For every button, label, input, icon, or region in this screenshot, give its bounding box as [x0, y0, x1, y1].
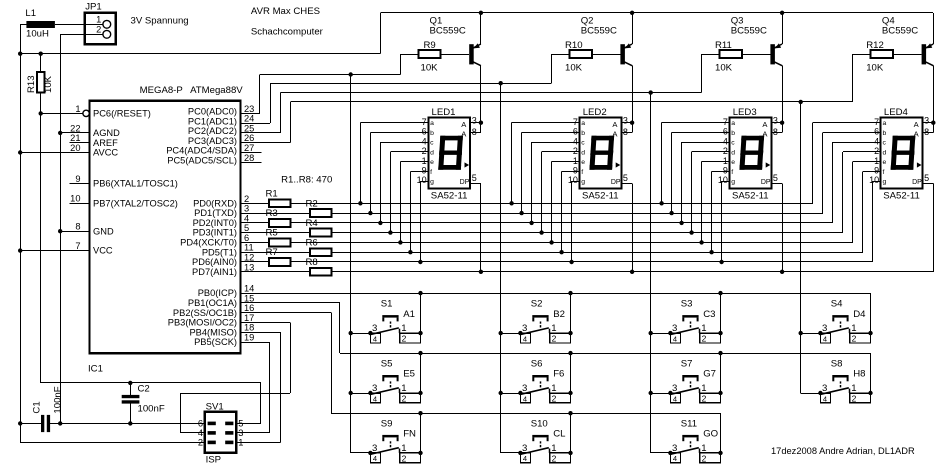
- svg-text:3: 3: [522, 443, 527, 454]
- svg-text:SA52-11: SA52-11: [582, 190, 619, 201]
- svg-text:4: 4: [198, 428, 203, 438]
- svg-text:S10: S10: [531, 418, 548, 429]
- svg-text:4: 4: [523, 394, 527, 403]
- svg-text:9: 9: [422, 166, 427, 176]
- svg-text:3: 3: [522, 323, 527, 334]
- svg-text:5: 5: [924, 173, 929, 183]
- svg-text:1: 1: [723, 156, 728, 166]
- svg-text:R3: R3: [266, 208, 278, 219]
- svg-text:8: 8: [924, 127, 929, 137]
- svg-text:2: 2: [723, 146, 728, 156]
- svg-text:F6: F6: [553, 369, 564, 380]
- svg-text:3: 3: [672, 383, 677, 394]
- wire PC0 net: [241, 54, 401, 453]
- svg-text:ATMega88V: ATMega88V: [190, 85, 243, 96]
- svg-text:S11: S11: [681, 418, 697, 429]
- svg-text:BC559C: BC559C: [581, 25, 617, 36]
- svg-text:19: 19: [244, 333, 254, 343]
- svg-text:a: a: [430, 120, 434, 127]
- svg-text:R7: R7: [266, 247, 278, 258]
- svg-text:3: 3: [672, 323, 677, 334]
- svg-text:R1..R8: 470: R1..R8: 470: [281, 174, 332, 185]
- svg-text:PD5(T1): PD5(T1): [202, 247, 237, 257]
- svg-text:10: 10: [718, 175, 728, 185]
- svg-text:6: 6: [244, 233, 249, 243]
- svg-text:17dez2008 Andre Adrian, DL1ADR: 17dez2008 Andre Adrian, DL1ADR: [771, 446, 915, 456]
- svg-text:f: f: [883, 169, 885, 176]
- resistor R2 470: [306, 198, 332, 217]
- svg-text:R12: R12: [866, 40, 884, 51]
- svg-text:5: 5: [773, 173, 778, 183]
- svg-text:SA52-11: SA52-11: [883, 190, 920, 201]
- text title: [251, 6, 324, 37]
- svg-text:PB3(MOSI/OC2): PB3(MOSI/OC2): [168, 318, 237, 328]
- svg-text:1: 1: [851, 383, 856, 394]
- svg-text:1: 1: [573, 156, 578, 166]
- svg-text:4: 4: [673, 454, 677, 463]
- svg-text:100nF: 100nF: [138, 404, 165, 415]
- resistor R10 10K: [552, 40, 592, 73]
- wire segment taps LED3: [659, 121, 784, 274]
- IC1 left pin stubs AREF PB6 PB7: [70, 143, 90, 204]
- svg-text:b: b: [581, 130, 585, 137]
- svg-text:17: 17: [244, 313, 254, 323]
- svg-text:LED2: LED2: [583, 107, 607, 118]
- wire PB1 keyboard row net: [241, 303, 871, 356]
- svg-text:S8: S8: [831, 358, 843, 369]
- svg-text:D4: D4: [853, 309, 866, 320]
- svg-text:C3: C3: [703, 309, 715, 320]
- wire PC1 net: [241, 54, 552, 453]
- svg-text:6: 6: [198, 419, 203, 429]
- switch S2 B2: [501, 299, 573, 344]
- wire PC2 net: [241, 54, 702, 453]
- op IC1 ATMega8 box: [88, 85, 243, 374]
- svg-text:2: 2: [702, 334, 707, 344]
- svg-text:4: 4: [673, 394, 677, 403]
- svg-text:PB0(ICP): PB0(ICP): [198, 288, 237, 298]
- wire PB5 SCK net: [236, 342, 270, 433]
- svg-text:5: 5: [472, 173, 477, 183]
- svg-text:ISP: ISP: [206, 455, 221, 466]
- svg-text:7: 7: [573, 117, 578, 127]
- svg-text:1: 1: [874, 156, 879, 166]
- svg-text:3: 3: [372, 443, 377, 454]
- svg-text:9: 9: [573, 166, 578, 176]
- svg-text:4: 4: [422, 136, 427, 146]
- svg-text:3: 3: [238, 428, 243, 438]
- svg-text:A1: A1: [403, 309, 415, 320]
- svg-text:1: 1: [551, 443, 556, 454]
- switch S6 F6: [501, 358, 573, 403]
- svg-text:C2: C2: [138, 384, 150, 395]
- resistor R12 10K: [853, 40, 893, 73]
- svg-text:4: 4: [523, 334, 527, 343]
- svg-text:PD0(RXD): PD0(RXD): [193, 198, 237, 208]
- svg-text:L1: L1: [25, 8, 36, 19]
- svg-text:18: 18: [244, 323, 254, 333]
- svg-text:E5: E5: [403, 369, 415, 380]
- svg-text:VCC: VCC: [93, 246, 113, 256]
- svg-text:1: 1: [96, 15, 101, 25]
- svg-text:AVCC: AVCC: [93, 148, 118, 158]
- wire keyboard right-contact links: [421, 293, 871, 453]
- svg-text:13: 13: [244, 262, 254, 272]
- svg-text:e: e: [883, 159, 887, 166]
- IC1 right pin stubs PC4 PC5: [241, 153, 262, 163]
- svg-text:10K: 10K: [43, 75, 54, 93]
- svg-text:SA52-11: SA52-11: [431, 190, 468, 201]
- transistor Q2 BC559C: [581, 13, 633, 133]
- svg-text:22: 22: [70, 123, 80, 133]
- svg-text:4: 4: [523, 454, 527, 463]
- svg-text:3V Spannung: 3V Spannung: [131, 15, 189, 26]
- svg-text:g: g: [430, 179, 434, 186]
- svg-text:R4: R4: [306, 218, 319, 229]
- svg-text:2: 2: [244, 194, 249, 204]
- svg-text:16: 16: [244, 303, 254, 313]
- IC1 pin 1 reset bubble: [83, 110, 89, 116]
- svg-text:9: 9: [75, 174, 80, 184]
- svg-text:2: 2: [422, 146, 427, 156]
- svg-text:8: 8: [75, 222, 80, 232]
- svg-text:3: 3: [472, 116, 477, 126]
- svg-text:2: 2: [552, 394, 557, 404]
- svg-text:14: 14: [244, 284, 254, 294]
- svg-text:AGND: AGND: [93, 128, 120, 138]
- svg-text:a: a: [883, 120, 887, 127]
- svg-text:JP1: JP1: [85, 2, 102, 13]
- resistor R5 470: [266, 228, 291, 247]
- svg-text:7: 7: [422, 117, 427, 127]
- svg-text:b: b: [430, 130, 434, 137]
- switch S5 E5: [351, 358, 423, 403]
- svg-text:2: 2: [852, 334, 857, 344]
- svg-text:BC559C: BC559C: [882, 25, 918, 36]
- svg-text:MEGA8-P: MEGA8-P: [140, 85, 183, 96]
- svg-text:CL: CL: [553, 429, 566, 440]
- svg-text:H8: H8: [853, 369, 865, 380]
- svg-text:R9: R9: [424, 40, 436, 51]
- svg-text:2: 2: [874, 146, 879, 156]
- svg-text:g: g: [581, 179, 585, 186]
- svg-text:1: 1: [401, 383, 406, 394]
- svg-text:SV1: SV1: [206, 401, 224, 412]
- display LED1 SA52-11: [417, 107, 477, 202]
- svg-text:4: 4: [723, 136, 728, 146]
- svg-text:4: 4: [823, 334, 827, 343]
- svg-text:BC559C: BC559C: [430, 25, 466, 36]
- svg-text:PB5(SCK): PB5(SCK): [194, 337, 237, 347]
- svg-text:PB7(XTAL2/TOSC2): PB7(XTAL2/TOSC2): [93, 198, 178, 208]
- display LED2 SA52-11: [568, 107, 628, 202]
- display LED4 SA52-11: [869, 107, 929, 202]
- svg-text:1: 1: [851, 323, 856, 334]
- svg-text:PC4(ADC4/SDA): PC4(ADC4/SDA): [166, 146, 237, 156]
- svg-text:2: 2: [552, 334, 557, 344]
- svg-text:4: 4: [823, 394, 827, 403]
- svg-text:C1: C1: [32, 401, 43, 413]
- svg-text:a: a: [581, 120, 585, 127]
- svg-text:20: 20: [70, 143, 80, 153]
- svg-text:S6: S6: [531, 358, 543, 369]
- svg-text:1: 1: [701, 443, 706, 454]
- svg-text:100nF: 100nF: [53, 386, 64, 413]
- svg-text:2: 2: [852, 394, 857, 404]
- svg-text:10K: 10K: [421, 63, 439, 74]
- IC1 pin labels: [70, 104, 254, 347]
- wire PC3 net: [241, 54, 853, 393]
- svg-text:28: 28: [244, 153, 254, 163]
- svg-text:3: 3: [522, 383, 527, 394]
- svg-text:23: 23: [244, 104, 254, 114]
- wire segment taps LED4: [813, 121, 936, 272]
- connector SV1 ISP: [195, 401, 244, 465]
- svg-text:1: 1: [238, 438, 243, 448]
- svg-text:11: 11: [244, 243, 254, 253]
- svg-text:7: 7: [723, 117, 728, 127]
- svg-text:2: 2: [702, 394, 707, 404]
- switch S4 D4: [801, 299, 873, 344]
- svg-text:9: 9: [723, 166, 728, 176]
- svg-text:21: 21: [70, 133, 80, 143]
- svg-text:2: 2: [702, 454, 707, 464]
- svg-text:5: 5: [238, 419, 243, 429]
- svg-text:3: 3: [924, 116, 929, 126]
- svg-text:10: 10: [869, 175, 879, 185]
- svg-text:4: 4: [373, 394, 377, 403]
- switch S3 C3: [651, 299, 723, 344]
- svg-text:d: d: [883, 149, 887, 156]
- wire segment taps LED1: [358, 121, 483, 274]
- svg-text:LED4: LED4: [884, 107, 909, 118]
- svg-text:AVR Max CHES: AVR Max CHES: [251, 6, 320, 17]
- svg-text:PD7(AIN1): PD7(AIN1): [192, 267, 237, 277]
- svg-text:4: 4: [373, 454, 377, 463]
- transistor Q3 BC559C: [731, 13, 783, 133]
- svg-text:10uH: 10uH: [26, 29, 49, 40]
- svg-text:FN: FN: [403, 429, 416, 440]
- svg-text:6: 6: [874, 127, 879, 137]
- wire PB3 MOSI net: [180, 322, 290, 433]
- inductor L1 10uH: [25, 8, 55, 39]
- transistor Q1 BC559C: [430, 13, 481, 133]
- svg-text:e: e: [581, 159, 585, 166]
- svg-text:S5: S5: [381, 358, 393, 369]
- svg-text:d: d: [581, 149, 585, 156]
- svg-text:GO: GO: [703, 429, 718, 440]
- svg-text:PC0(ADC0): PC0(ADC0): [188, 107, 237, 117]
- svg-text:1: 1: [701, 383, 706, 394]
- svg-text:27: 27: [244, 143, 254, 153]
- svg-text:PD1(TXD): PD1(TXD): [194, 208, 237, 218]
- svg-text:Schachcomputer: Schachcomputer: [251, 26, 324, 37]
- svg-text:2: 2: [198, 438, 203, 448]
- svg-text:7: 7: [75, 241, 80, 251]
- wire PB4 MISO net: [236, 332, 280, 442]
- svg-text:10: 10: [568, 175, 578, 185]
- switch S1 A1: [351, 299, 423, 344]
- svg-text:3: 3: [623, 116, 628, 126]
- svg-text:B2: B2: [553, 309, 565, 320]
- svg-text:2: 2: [552, 454, 557, 464]
- svg-text:c: c: [430, 140, 434, 147]
- svg-text:LED3: LED3: [733, 107, 757, 118]
- svg-text:4: 4: [673, 334, 677, 343]
- svg-text:f: f: [430, 169, 432, 176]
- svg-text:DP: DP: [460, 179, 470, 186]
- svg-text:1: 1: [422, 156, 427, 166]
- svg-text:15: 15: [244, 293, 254, 303]
- svg-text:3: 3: [672, 443, 677, 454]
- switch S8 H8: [801, 358, 873, 403]
- svg-text:BC559C: BC559C: [731, 25, 767, 36]
- svg-text:DP: DP: [761, 179, 771, 186]
- svg-text:10: 10: [70, 194, 80, 204]
- wire PB0 keyboard row net: [241, 291, 871, 295]
- svg-text:10K: 10K: [866, 63, 884, 74]
- svg-text:PD4(XCK/T0): PD4(XCK/T0): [180, 238, 237, 248]
- resistor R11 10K: [702, 40, 742, 73]
- svg-text:S3: S3: [681, 299, 693, 310]
- svg-text:e: e: [731, 159, 735, 166]
- wire segment taps LED2: [509, 121, 634, 274]
- svg-text:LED1: LED1: [432, 107, 456, 118]
- svg-text:PD2(INT0): PD2(INT0): [193, 218, 237, 228]
- svg-text:PB6(XTAL1/TOSC1): PB6(XTAL1/TOSC1): [93, 178, 178, 188]
- svg-text:10K: 10K: [565, 63, 583, 74]
- svg-text:PD6(AIN0): PD6(AIN0): [192, 257, 237, 267]
- svg-text:4: 4: [573, 136, 578, 146]
- svg-text:2: 2: [402, 334, 407, 344]
- svg-text:PD3(INT1): PD3(INT1): [193, 228, 237, 238]
- svg-text:S1: S1: [381, 299, 393, 310]
- wire GND net: [50, 34, 205, 425]
- resistor R6 470: [306, 237, 332, 256]
- svg-text:8: 8: [773, 127, 778, 137]
- svg-text:c: c: [581, 140, 585, 147]
- svg-text:4: 4: [373, 334, 377, 343]
- svg-text:R10: R10: [565, 40, 583, 51]
- svg-text:8: 8: [472, 127, 477, 137]
- resistor R3 470: [266, 208, 291, 227]
- svg-text:26: 26: [244, 133, 254, 143]
- svg-text:DP: DP: [912, 179, 922, 186]
- svg-text:R1: R1: [266, 189, 278, 200]
- svg-text:d: d: [430, 149, 434, 156]
- svg-text:PC3(ADC3): PC3(ADC3): [188, 136, 237, 146]
- resistor R9 10K: [401, 40, 441, 73]
- svg-text:g: g: [883, 179, 887, 186]
- svg-text:DP: DP: [611, 179, 621, 186]
- svg-text:2: 2: [573, 146, 578, 156]
- switch S11 GO: [651, 418, 723, 463]
- svg-text:8: 8: [623, 127, 628, 137]
- svg-text:S2: S2: [531, 299, 543, 310]
- svg-text:R13: R13: [26, 75, 37, 93]
- svg-text:3: 3: [822, 383, 827, 394]
- svg-text:PB2(SS/OC1B): PB2(SS/OC1B): [173, 308, 237, 318]
- svg-text:24: 24: [244, 114, 254, 124]
- switch S7 G7: [651, 358, 723, 403]
- svg-text:3: 3: [372, 323, 377, 334]
- switch S10 CL: [501, 418, 573, 463]
- svg-text:6: 6: [422, 127, 427, 137]
- svg-text:GND: GND: [93, 226, 114, 236]
- svg-text:7: 7: [874, 117, 879, 127]
- svg-text:g: g: [731, 179, 735, 186]
- svg-text:R5: R5: [266, 228, 278, 239]
- svg-text:1: 1: [75, 104, 80, 114]
- svg-text:a: a: [731, 120, 735, 127]
- svg-text:f: f: [731, 169, 733, 176]
- svg-text:3: 3: [372, 383, 377, 394]
- svg-text:PB4(MISO): PB4(MISO): [189, 327, 237, 337]
- svg-text:b: b: [883, 130, 887, 137]
- svg-text:S9: S9: [381, 418, 393, 429]
- wire RESET net: [39, 52, 261, 424]
- svg-text:S4: S4: [831, 299, 843, 310]
- svg-text:2: 2: [96, 25, 101, 35]
- svg-text:d: d: [731, 149, 735, 156]
- resistor R1 470: [266, 189, 291, 208]
- svg-text:2: 2: [402, 394, 407, 404]
- capacitor C2 100nF: [122, 381, 165, 424]
- wire segment data rows PD0-PD7: [241, 204, 934, 272]
- capacitor C1 100nF: [20, 386, 63, 432]
- transistor Q4 BC559C: [882, 13, 934, 133]
- svg-text:R6: R6: [306, 237, 318, 248]
- svg-text:5: 5: [244, 223, 249, 233]
- svg-text:PC1(ADC1): PC1(ADC1): [188, 116, 237, 126]
- svg-text:PB1(OC1A): PB1(OC1A): [188, 298, 237, 308]
- svg-text:PC5(ADC5/SCL): PC5(ADC5/SCL): [167, 155, 237, 165]
- svg-text:G7: G7: [703, 369, 716, 380]
- svg-text:10: 10: [417, 175, 427, 185]
- svg-text:3: 3: [773, 116, 778, 126]
- svg-text:9: 9: [874, 166, 879, 176]
- svg-text:1: 1: [551, 383, 556, 394]
- svg-text:4: 4: [874, 136, 879, 146]
- svg-text:6: 6: [573, 127, 578, 137]
- wire PB2 keyboard row net: [241, 313, 721, 416]
- svg-text:R11: R11: [715, 40, 732, 51]
- resistor R13 10K: [26, 72, 54, 93]
- svg-text:10K: 10K: [715, 63, 733, 74]
- svg-text:R8: R8: [306, 257, 318, 268]
- svg-text:e: e: [430, 159, 434, 166]
- display LED3 SA52-11: [718, 107, 778, 202]
- connector JP1 3V Spannung: [60, 2, 188, 45]
- switch S9 FN: [351, 418, 423, 463]
- svg-text:1: 1: [551, 323, 556, 334]
- svg-text:IC1: IC1: [88, 364, 103, 375]
- svg-text:f: f: [581, 169, 583, 176]
- svg-text:3: 3: [822, 323, 827, 334]
- svg-text:1: 1: [401, 443, 406, 454]
- svg-text:2: 2: [402, 454, 407, 464]
- resistor R7 470: [266, 247, 291, 266]
- resistor R4 470: [306, 218, 332, 237]
- svg-text:PC2(ADC2): PC2(ADC2): [188, 126, 237, 136]
- svg-text:6: 6: [723, 127, 728, 137]
- svg-text:SA52-11: SA52-11: [732, 190, 769, 201]
- resistor R8 470: [306, 257, 332, 276]
- svg-text:3: 3: [244, 204, 249, 214]
- svg-text:R2: R2: [306, 198, 318, 209]
- svg-text:1: 1: [401, 323, 406, 334]
- svg-text:b: b: [731, 130, 735, 137]
